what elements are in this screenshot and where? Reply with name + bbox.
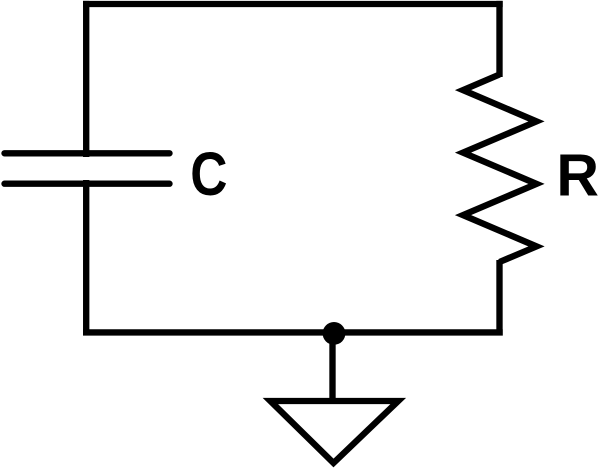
ground symbol triangle bbox=[270, 401, 398, 463]
wire: resistor top lead from top-right corner bbox=[496, 1, 502, 77]
capacitor C bottom plate bbox=[5, 181, 170, 187]
svg-text:R: R bbox=[556, 143, 599, 209]
capacitor C top plate bbox=[5, 150, 170, 156]
value label C (capacitor) bbox=[190, 140, 227, 208]
wire: bottom horizontal from left corner to right corner bbox=[83, 329, 503, 335]
wire: capacitor bottom lead down to bottom-left corner bbox=[83, 180, 89, 336]
wire: top horizontal from left corner to right corner bbox=[83, 1, 503, 7]
resistor R body (zigzag) bbox=[463, 75, 537, 263]
wire: capacitor top lead up to top-left corner bbox=[83, 1, 89, 157]
wire: ground lead stub from node down to ground symbol bbox=[329, 332, 335, 401]
svg-text:C: C bbox=[190, 140, 227, 208]
node: junction dot at ground node bbox=[323, 322, 346, 345]
wire: resistor bottom lead down to bottom-right corner bbox=[496, 260, 502, 336]
